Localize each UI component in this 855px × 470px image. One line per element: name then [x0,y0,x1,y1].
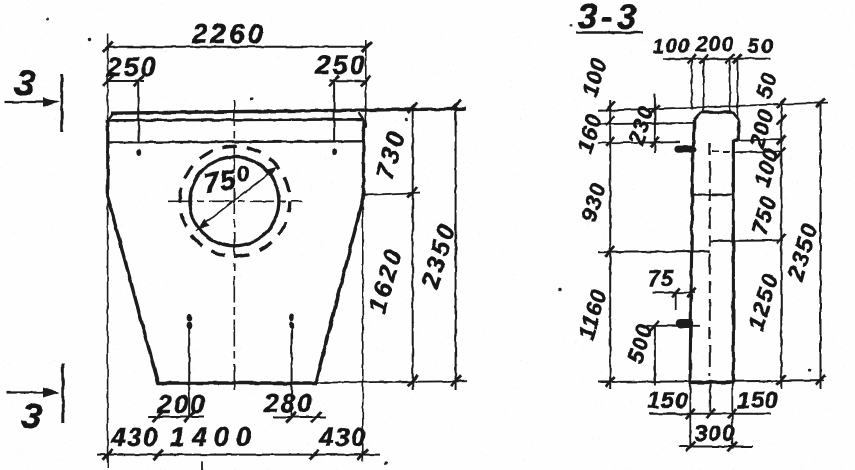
svg-text:75: 75 [648,266,674,291]
diameter dimension line [196,166,279,231]
hidden hole bottom dashes [712,151,731,153]
svg-text:150: 150 [737,387,778,413]
block right edge [362,120,365,198]
bottom hook left line [188,328,190,418]
bottom edge extension to right dims [317,381,467,382]
section interior line right (and ext to 750 dim) [710,239,783,242]
section profile: left edge below hook [690,153,693,383]
tick 500 [650,321,659,331]
block top-right corner chamfer [359,113,364,120]
block band bottom line [108,141,364,142]
ticks 230 [650,104,659,147]
diameter arrow lower-left [197,219,210,229]
hook-top extension left [598,141,680,144]
dim 250 left line [108,80,144,82]
svg-text:50: 50 [747,35,774,58]
section mark top: bar [60,75,63,133]
dim 200 line [148,416,204,418]
svg-text:280: 280 [263,388,313,418]
dim 280 ticks [287,412,321,422]
svg-text:100: 100 [652,35,690,58]
view vertical centerline [233,100,235,391]
svg-text:75: 75 [201,164,238,199]
hole solid circle [190,157,279,246]
ext verticals bottom [690,383,732,449]
svg-text:2260: 2260 [191,18,266,49]
svg-text:150: 150 [647,387,688,413]
dim 150/150 line [649,413,771,415]
dim 430/1400/430 line [97,454,381,456]
slope break extension right [364,193,421,195]
ticks 100/200/50 [687,54,742,64]
ticks 430/1400/430 [103,449,368,459]
dim 75 line [653,292,695,294]
svg-text:250: 250 [105,52,157,82]
extension stub below left [107,455,109,468]
block bottom edge [157,381,317,384]
section profile: stem right edge [732,140,735,382]
hole dashed circle [180,146,290,256]
right slope edge [316,197,364,383]
section interior joint line [691,194,734,196]
ticks 2350 [451,100,461,386]
section mark bottom: arrow line [7,391,52,393]
anchor right dot [332,148,337,155]
ticks left dim line [606,102,615,387]
section mark bottom: bar [61,364,64,423]
ticks 2350 right [816,98,825,385]
section mark bottom: arrowhead [43,388,60,398]
centerline extension below [709,382,711,412]
bottom long line [598,381,824,382]
block left edge [106,120,109,198]
lower lifting hook [681,319,689,329]
section profile: bottom edge (thick) [689,381,734,384]
section profile: top edge [701,111,733,114]
right dim line (50/200/100/750/1250) [780,101,782,389]
dim 250 right ticks [329,76,371,87]
section mark top: arrowhead [43,97,60,107]
svg-text:3-3: 3-3 [578,0,641,37]
svg-text:430: 430 [318,422,367,452]
dim 500 vertical [654,326,656,385]
block top-left corner chamfer [108,114,113,121]
step extension right [739,139,783,142]
dim 280 line [273,416,326,418]
dim 2350 vertical [455,104,457,390]
anchor left dot [136,149,141,156]
top long extension line [598,103,828,111]
dim 2260 ticks [103,42,372,53]
section mark top: arrow line [5,101,52,103]
dim 100/200/50 top line [663,58,771,60]
left dim line (100/160/930/1160) [609,100,611,389]
upper lifting hook [678,146,693,153]
diameter arrow upper-right [265,167,278,178]
section centerline [709,143,711,376]
svg-text:200: 200 [156,389,206,419]
dim 250 left ticks [103,76,144,86]
circle horizontal centerline [168,200,302,202]
dim 300 line [679,446,753,448]
section title underline [576,31,643,34]
dim 200 ticks [153,412,195,422]
anchor right vertical [333,83,335,142]
section profile: right step [733,139,738,142]
svg-text:300: 300 [694,420,735,446]
bottom hook left dots [187,313,192,321]
dim 500 ext horizontal [646,325,700,327]
ticks 150/150 [686,409,737,419]
hole-bottom extension right [733,151,783,154]
section interior line left (and ext to 930 dim) [598,250,710,253]
ticks 730/1620 [408,102,418,386]
ticks 300 [686,442,737,452]
block top edge line (extends right to dim lines) [111,109,466,113]
right lower extension line [362,200,364,461]
bottom hook right dots [289,313,294,321]
ext verticals top dims [692,60,738,118]
section profile: head left edge [692,121,695,147]
bottom hook right line [291,328,293,418]
svg-text:200: 200 [695,33,734,56]
ticks right dim line [777,98,786,385]
block top inner line [108,119,362,120]
left outer extension line [107,33,109,462]
right top extension line [365,40,367,128]
svg-text:250: 250 [314,50,366,80]
dim line 730/1620 vertical [412,106,414,390]
section profile: top-left chamfer [694,112,701,120]
dim 75 arrow tick [672,288,696,297]
scan specks [47,18,50,21]
dim 250 right line [329,80,366,82]
dim 2260 line [108,46,367,48]
anchor left vertical [138,83,140,143]
extension stub 1400 [201,461,203,470]
svg-text:430: 430 [110,422,159,452]
svg-text:1400: 1400 [170,422,258,452]
dim 2350 right line [820,101,822,389]
dim 230 line [654,94,656,153]
section profile: head right edge [737,120,740,140]
dim 75 ext vertical [675,293,677,310]
section profile: top-right chamfer [733,112,739,120]
left slope edge [108,197,158,383]
chamfer-bottom extension left [598,123,694,124]
